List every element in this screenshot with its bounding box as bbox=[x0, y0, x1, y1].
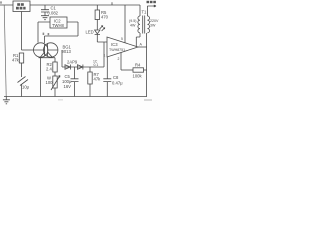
svg-text:5: 5 bbox=[121, 37, 123, 41]
ground bbox=[3, 97, 10, 104]
wire bottom bus bbox=[4, 96, 147, 98]
wire into bars bbox=[34, 49, 58, 51]
wire secondary top to load arrow bbox=[147, 5, 156, 16]
svg-text:9013: 9013 bbox=[62, 49, 72, 54]
svg-text:470: 470 bbox=[101, 15, 109, 20]
wire Q2 out corner bbox=[61, 50, 63, 67]
scan artifact 2 bbox=[58, 99, 63, 101]
pin digit Q1 bbox=[43, 33, 45, 35]
svg-text:TWH8751: TWH8751 bbox=[109, 48, 125, 52]
svg-text:LED: LED bbox=[86, 30, 94, 35]
sensor box B1 bbox=[13, 1, 30, 12]
wire LED to input bbox=[97, 34, 107, 42]
svg-text:A: A bbox=[140, 43, 143, 47]
label B1 text bbox=[16, 3, 26, 9]
emitter arrows bbox=[40, 52, 52, 57]
svg-text:2.4: 2.4 bbox=[46, 67, 52, 72]
wire power pin bbox=[124, 5, 126, 43]
svg-text:100: 100 bbox=[46, 80, 54, 85]
LED D3 bbox=[95, 30, 100, 34]
wire detector chain bbox=[62, 66, 104, 68]
regulator IC2 box bbox=[50, 17, 67, 28]
svg-text:10μ: 10μ bbox=[22, 85, 30, 90]
wire top rail bbox=[0, 4, 140, 6]
svg-text:(9.5): (9.5) bbox=[129, 19, 136, 23]
transistor Q1 circle bbox=[34, 43, 48, 57]
svg-text:IC3: IC3 bbox=[111, 42, 118, 47]
wire left rail bbox=[4, 5, 6, 97]
transistor Q2 circle bbox=[44, 43, 58, 57]
ground under C1 bbox=[41, 16, 49, 20]
label load arrow text bbox=[147, 1, 156, 3]
wire to R2 bbox=[54, 58, 56, 62]
svg-text:C8: C8 bbox=[113, 75, 119, 80]
svg-text:TWH8: TWH8 bbox=[52, 23, 65, 28]
op-amp IC3 bbox=[107, 37, 138, 57]
wire emitter bus bbox=[39, 57, 56, 59]
diode D1 bbox=[65, 65, 70, 70]
svg-text:0.1: 0.1 bbox=[94, 63, 99, 67]
resistor R7 bbox=[89, 67, 91, 72]
wire pin2 stub bbox=[120, 53, 122, 71]
wire output column bbox=[146, 33, 148, 97]
wire primary bottom to output bbox=[136, 33, 140, 47]
wire feedback bbox=[121, 69, 133, 71]
wire junction tick bbox=[111, 2, 113, 5]
wire IC2 right loop bbox=[45, 22, 79, 43]
svg-text:0.082: 0.082 bbox=[48, 11, 59, 16]
svg-text:2AP9: 2AP9 bbox=[67, 60, 78, 65]
potentiometer W bbox=[53, 76, 57, 88]
resistor R4 bbox=[133, 68, 144, 72]
scan artifact bbox=[144, 99, 152, 101]
wire output bbox=[138, 46, 147, 48]
wire node to Q1 base bbox=[22, 49, 34, 51]
resistor R2 bbox=[53, 62, 57, 72]
svg-text:0.47μ: 0.47μ bbox=[112, 81, 123, 86]
wire IC2 left to Q1 collector bbox=[38, 22, 50, 43]
svg-text:47k: 47k bbox=[12, 58, 20, 63]
diode D2 bbox=[78, 65, 83, 70]
resistor R1 bbox=[19, 53, 23, 63]
svg-text:16V: 16V bbox=[64, 84, 72, 89]
svg-text:R4: R4 bbox=[135, 63, 141, 68]
capacitor C2 polarized diagonal bbox=[18, 77, 29, 86]
capacitor C8 bbox=[103, 57, 111, 97]
svg-text:1: 1 bbox=[104, 54, 106, 58]
svg-text:47k: 47k bbox=[94, 77, 102, 82]
transformer T1 bbox=[139, 5, 141, 16]
svg-text:220V: 220V bbox=[150, 19, 159, 23]
wire sensor bottom lead bbox=[21, 12, 23, 51]
svg-text:4W: 4W bbox=[130, 24, 136, 28]
svg-text:3W: 3W bbox=[150, 24, 156, 28]
svg-text:2: 2 bbox=[118, 57, 120, 61]
svg-text:T1: T1 bbox=[142, 10, 148, 15]
wire chain to input bbox=[103, 42, 105, 67]
capacitor C5 bbox=[71, 67, 79, 97]
corner mark top-left bbox=[0, 1, 1, 3]
wire emitter down bbox=[40, 58, 42, 97]
Q1 Q2 base bars bbox=[45, 44, 48, 56]
svg-text:100k: 100k bbox=[133, 74, 143, 79]
capacitor C1 bbox=[41, 5, 49, 16]
resistor R5 bbox=[96, 5, 98, 10]
pin digit Q2 bbox=[48, 33, 50, 35]
